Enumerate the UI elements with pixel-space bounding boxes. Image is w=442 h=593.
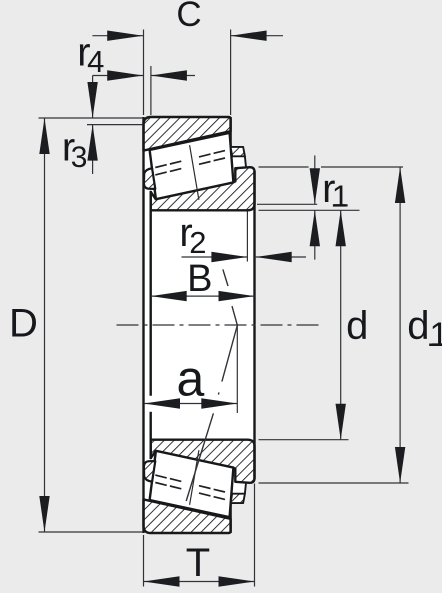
svg-text:d: d bbox=[346, 304, 368, 348]
svg-text:a: a bbox=[176, 351, 204, 407]
svg-text:B: B bbox=[187, 258, 212, 300]
svg-text:T: T bbox=[186, 541, 210, 585]
svg-text:C: C bbox=[176, 0, 201, 34]
svg-text:D: D bbox=[9, 302, 38, 346]
